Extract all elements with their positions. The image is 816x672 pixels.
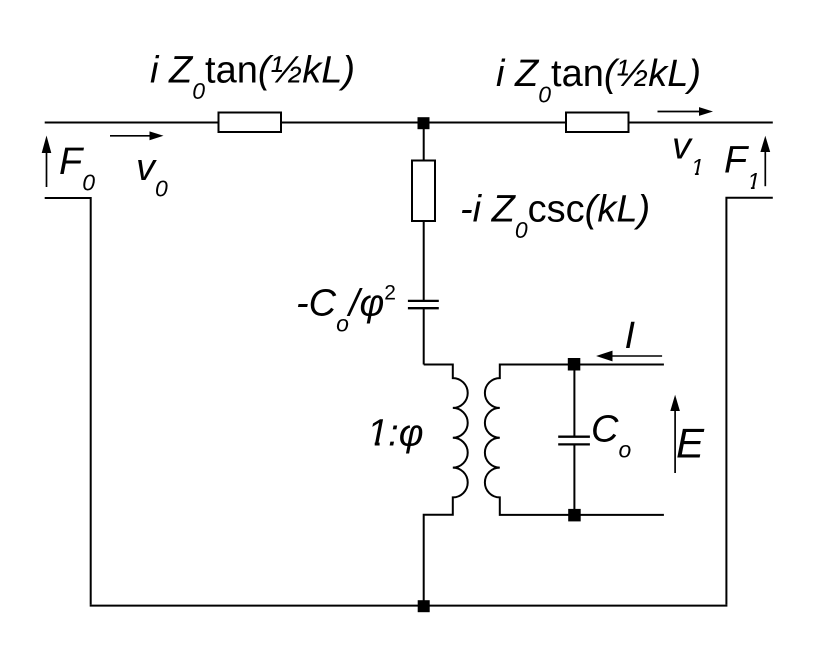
node junction J2 bottom center xyxy=(418,600,430,612)
wire left port step xyxy=(45,198,91,605)
arrow E up xyxy=(674,410,676,473)
arrow F1 up xyxy=(764,151,766,186)
svg-text:i Z0tan(½kL): i Z0tan(½kL) xyxy=(496,53,701,108)
wire bottom rail xyxy=(90,605,728,607)
arrow v1 xyxy=(658,111,700,113)
transformer secondary winding xyxy=(485,365,664,515)
svg-text:1:φ: 1:φ xyxy=(367,412,423,454)
svg-text:-Co/φ2: -Co/φ2 xyxy=(296,281,396,336)
svg-text:v1: v1 xyxy=(672,126,704,181)
arrow v0 xyxy=(110,135,150,137)
wire center branch middle xyxy=(423,221,425,300)
resistor shunt -iZ0csc xyxy=(412,161,435,222)
arrow F0 up xyxy=(46,152,48,187)
svg-text:v0: v0 xyxy=(136,147,168,202)
wire center branch upper xyxy=(423,128,425,161)
svg-text:-i Z0csc(kL): -i Z0csc(kL) xyxy=(460,189,650,244)
resistor series right iZ0tan xyxy=(566,113,629,133)
capacitor -Co/phi2 plates xyxy=(408,300,439,302)
svg-text:E: E xyxy=(676,419,705,466)
node junction J1 top center xyxy=(418,117,430,129)
svg-text:F1: F1 xyxy=(724,140,760,195)
arrow I current left xyxy=(612,355,662,357)
wire capacitor Co bottom lead xyxy=(573,444,575,515)
wire top rail xyxy=(45,122,773,124)
svg-text:Co: Co xyxy=(591,408,631,462)
wire right port step xyxy=(726,198,772,605)
resistor series left iZ0tan xyxy=(219,113,282,133)
node junction J4 secondary bottom xyxy=(568,509,581,522)
node junction J3 secondary top xyxy=(568,358,581,371)
wire center branch lower xyxy=(423,308,425,364)
capacitor Co plates xyxy=(558,436,590,438)
svg-text:i Z0tan(½kL): i Z0tan(½kL) xyxy=(150,50,355,105)
wire capacitor Co top lead xyxy=(573,365,575,437)
svg-text:I: I xyxy=(625,315,636,357)
transformer primary winding 1:phi xyxy=(424,365,468,606)
svg-text:F0: F0 xyxy=(59,141,95,196)
